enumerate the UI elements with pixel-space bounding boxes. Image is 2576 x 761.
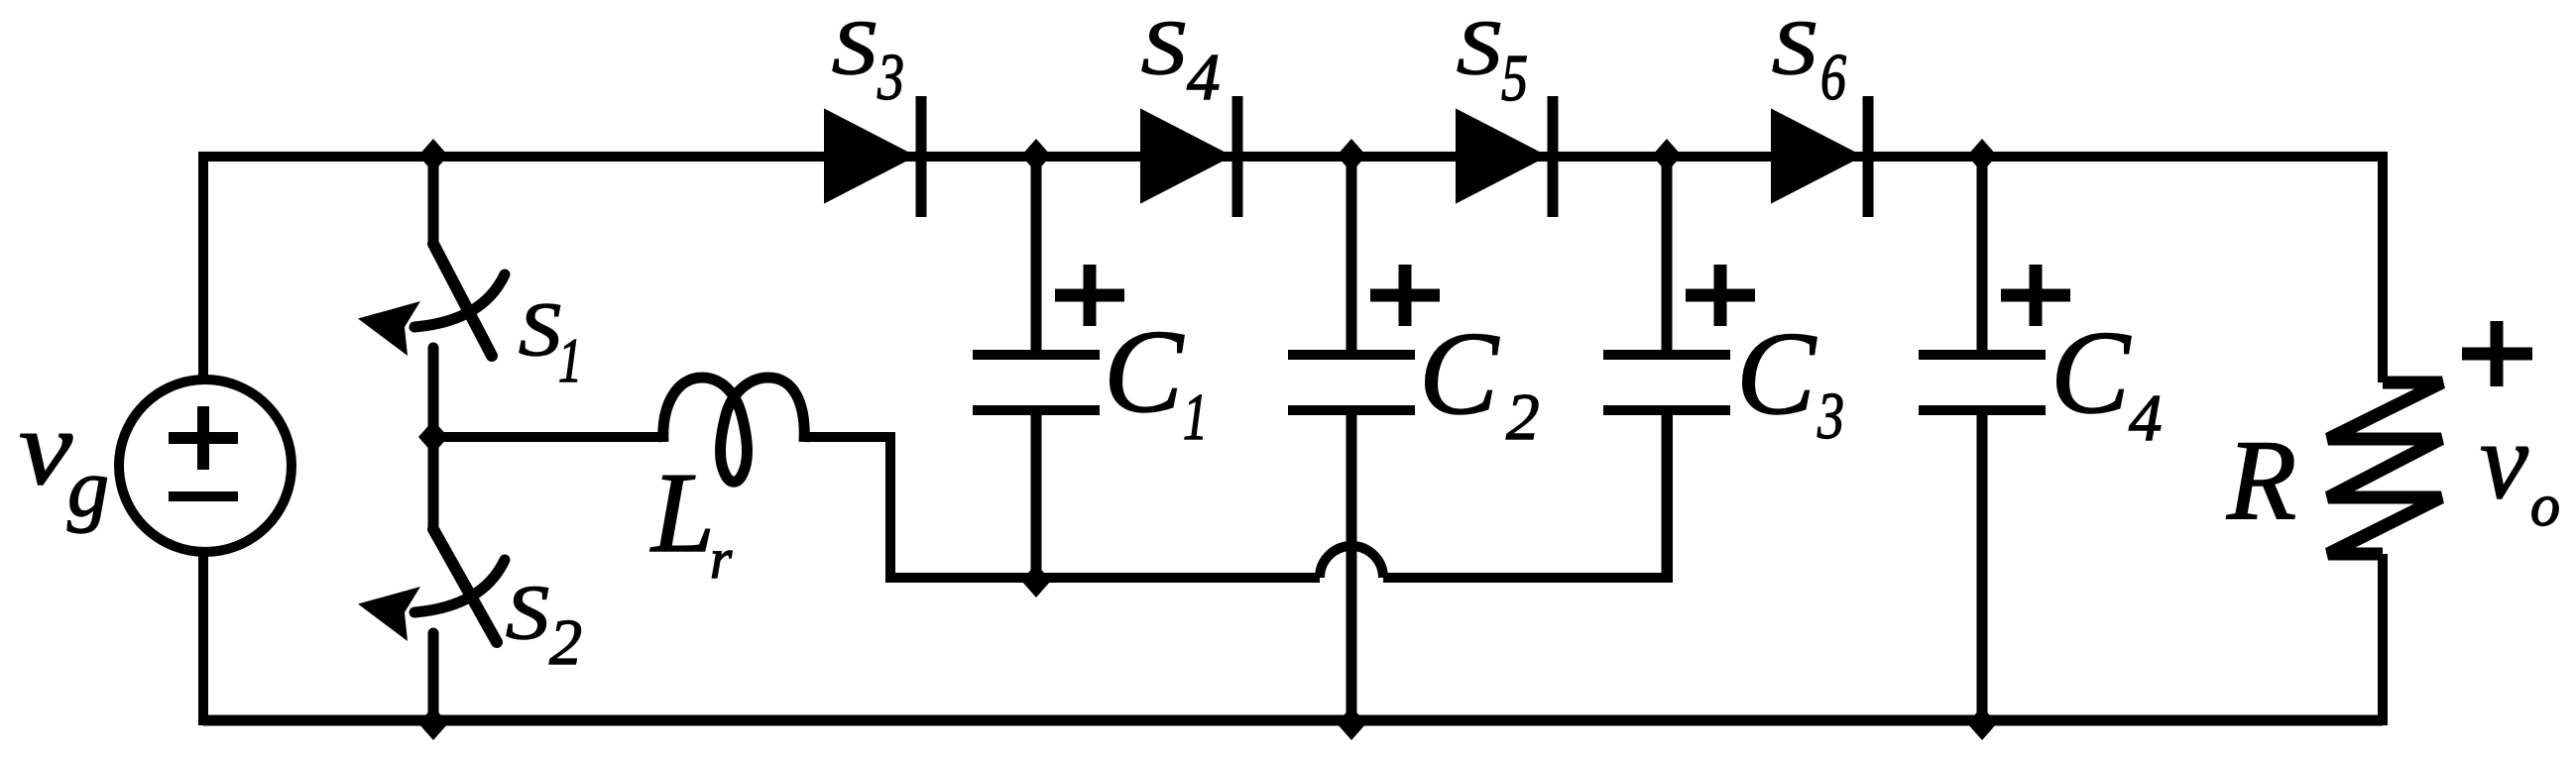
wire left edge upper xyxy=(198,152,208,380)
node C2 top xyxy=(1337,139,1366,172)
svg-text:C: C xyxy=(1419,307,1500,439)
wire right edge lower xyxy=(2378,554,2388,725)
svg-text:3: 3 xyxy=(1816,380,1844,453)
svg-text:o: o xyxy=(2530,473,2560,538)
svg-text:C: C xyxy=(1736,307,1817,439)
label S3 xyxy=(832,4,904,114)
node C1 top xyxy=(1021,139,1051,172)
label S6 xyxy=(1772,4,1846,114)
svg-text:v: v xyxy=(2480,400,2528,521)
svg-text:R: R xyxy=(2226,417,2296,543)
diode S4 xyxy=(1141,96,1237,217)
svg-text:L: L xyxy=(649,450,715,576)
label S2 xyxy=(506,569,582,679)
svg-text:1: 1 xyxy=(1183,380,1208,454)
wire bottom rail xyxy=(203,715,2383,726)
polarity plus C1 xyxy=(1055,265,1124,326)
node C3 top xyxy=(1652,139,1682,172)
svg-text:S: S xyxy=(1457,4,1501,90)
wire hop to C3 bottom xyxy=(1383,410,1668,578)
svg-text:2: 2 xyxy=(1506,380,1540,454)
node C4 bottom xyxy=(1967,707,1997,740)
label C4 xyxy=(2050,306,2163,455)
label Lr xyxy=(649,450,733,591)
switch S1 xyxy=(358,152,505,441)
capacitor C2 xyxy=(1288,157,1415,725)
wire top rail xyxy=(203,152,2383,162)
svg-text:3: 3 xyxy=(877,41,904,114)
node C4 top xyxy=(1967,139,1997,172)
svg-text:4: 4 xyxy=(2129,381,2163,455)
diode S3 xyxy=(825,96,921,217)
svg-text:S: S xyxy=(519,286,561,372)
label R xyxy=(2226,417,2296,543)
diode S6 xyxy=(1772,96,1868,217)
node C2 bottom xyxy=(1337,707,1366,740)
svg-text:g: g xyxy=(67,442,109,534)
inductor Lr xyxy=(663,378,804,482)
svg-text:5: 5 xyxy=(1501,42,1528,115)
node bottom of S2 branch xyxy=(418,707,448,740)
label C2 xyxy=(1419,307,1540,454)
capacitor C4 xyxy=(1919,157,2046,725)
svg-text:C: C xyxy=(1104,305,1185,437)
svg-text:2: 2 xyxy=(549,606,582,679)
wire middle node to inductor xyxy=(433,432,663,442)
label C1 xyxy=(1104,305,1208,454)
node top of S1 branch xyxy=(418,139,448,172)
polarity plus C2 xyxy=(1370,265,1440,326)
svg-text:S: S xyxy=(1772,4,1816,90)
resistor R xyxy=(2328,382,2442,554)
voltage source Vg xyxy=(119,380,292,552)
label vg xyxy=(19,389,109,534)
svg-text:1: 1 xyxy=(558,325,582,395)
label S4 xyxy=(1141,4,1221,114)
label vo xyxy=(2480,400,2560,538)
polarity plus C4 xyxy=(2001,265,2070,326)
diode S5 xyxy=(1457,96,1553,217)
polarity plus vo xyxy=(2462,321,2532,386)
node middle of switch branch xyxy=(418,420,448,454)
svg-text:C: C xyxy=(2050,306,2132,438)
wire right edge upper xyxy=(2378,152,2388,382)
svg-text:r: r xyxy=(710,528,733,591)
capacitor C1 xyxy=(973,157,1100,578)
wire left edge lower xyxy=(198,550,208,725)
svg-text:S: S xyxy=(832,4,877,90)
label S1 xyxy=(519,286,582,395)
svg-text:S: S xyxy=(1141,4,1186,90)
label S5 xyxy=(1457,4,1528,115)
switch S2 xyxy=(358,436,505,725)
label C3 xyxy=(1736,307,1844,453)
wire inductor to C1 bottom (step down) xyxy=(804,437,1320,578)
svg-text:v: v xyxy=(19,389,72,507)
polarity plus C3 xyxy=(1686,265,1755,326)
svg-text:4: 4 xyxy=(1187,41,1221,114)
svg-text:S: S xyxy=(506,569,549,655)
node C1 bottom junction xyxy=(1021,564,1051,598)
svg-text:6: 6 xyxy=(1820,41,1846,114)
wire hop over C2 branch xyxy=(1320,546,1383,578)
capacitor C3 xyxy=(1603,157,1730,578)
